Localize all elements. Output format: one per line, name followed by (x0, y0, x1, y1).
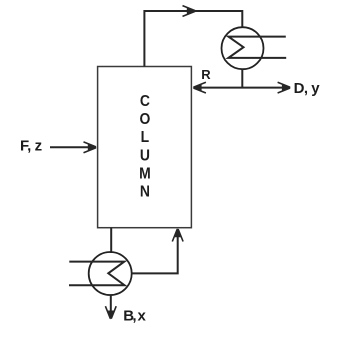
wire: reflux / distillate horizontal line (194, 87, 291, 89)
reboiler U2 circle (89, 252, 132, 295)
column vessel rectangle (98, 67, 192, 228)
wire: condenser outlet down to distillate line (241, 69, 243, 88)
arrow boilup into column bottom (pointing up) (172, 228, 183, 241)
svg-text:M: M (139, 166, 151, 183)
svg-text:R: R (201, 67, 211, 82)
arrow reflux into column (pointing left) (193, 82, 206, 93)
condenser coil (sigma) with coolant lines right (228, 37, 286, 58)
svg-text:U: U (140, 148, 150, 165)
svg-text:B, x: B, x (123, 307, 146, 324)
reboiler coil (mirrored sigma) with heating lines left (69, 262, 125, 286)
arrow distillate out (pointing right) (278, 82, 291, 93)
svg-text:L: L (141, 130, 150, 147)
arrow feed into column (pointing right) (84, 142, 97, 153)
svg-text:D, y: D, y (294, 80, 321, 97)
svg-text:N: N (140, 184, 150, 201)
wire: column bottom down to reboiler (110, 228, 112, 253)
svg-text:F, z: F, z (20, 137, 42, 154)
wire: boilup return line to column (right of reboiler, up) (132, 229, 178, 273)
label COLUMN (vertical) (139, 93, 151, 200)
arrow on vapor line (pointing right) (183, 6, 196, 17)
wire: bottoms product line down from reboiler (110, 295, 112, 319)
arrow bottoms out (pointing down) (105, 306, 116, 319)
svg-text:C: C (140, 93, 150, 110)
condenser U1 circle (222, 27, 264, 69)
wire: overhead vapor line column top to condenser (144, 11, 242, 67)
svg-text:O: O (139, 112, 150, 129)
wire: feed line into column (50, 146, 96, 148)
